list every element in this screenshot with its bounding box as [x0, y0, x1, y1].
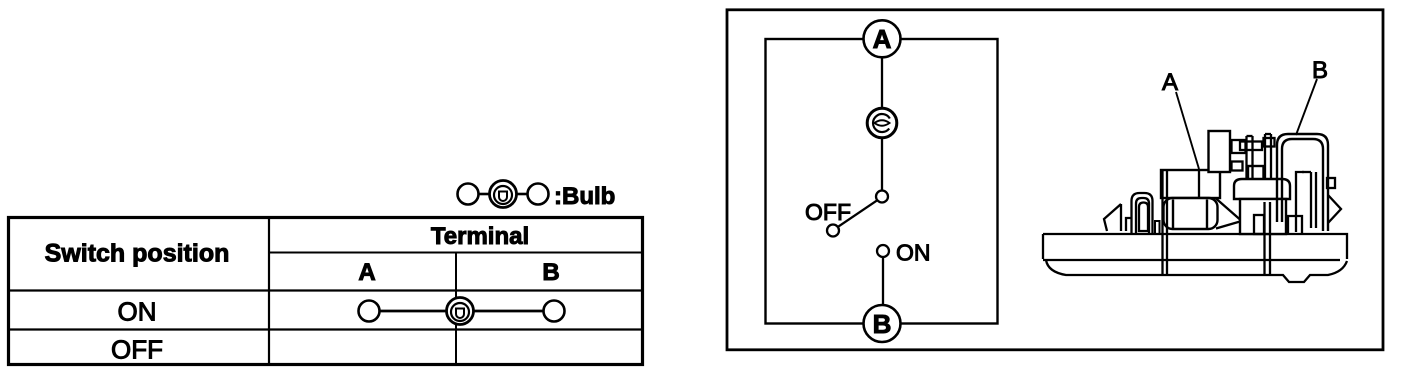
lamp inner right post: [1302, 172, 1316, 228]
svg-text:ON: ON: [118, 297, 157, 327]
table row line under Terminal: [269, 252, 642, 254]
circuit box: [766, 39, 998, 324]
lamp terminal posts: [1247, 134, 1272, 202]
lamp reflector cone: [1216, 199, 1240, 229]
svg-text:OFF: OFF: [111, 335, 163, 365]
lamp switch lid: [1234, 179, 1290, 199]
ON row continuity: terminal A circle: [359, 301, 380, 322]
svg-text:B: B: [873, 309, 892, 339]
svg-text:Switch position: Switch position: [45, 240, 230, 268]
lamp knob lower tab: [1232, 162, 1243, 171]
lamp base tray: [1043, 234, 1347, 282]
svg-text:A: A: [873, 24, 892, 54]
lamp bulb cylinder: [1164, 198, 1218, 229]
switch arm: [838, 200, 877, 227]
lamp switch body: [1240, 199, 1286, 234]
lamp crossbar left: [1240, 142, 1262, 151]
ON row terminal B circle: [544, 301, 565, 322]
svg-text:OFF: OFF: [805, 199, 851, 225]
lamp small post right of staple: [1155, 221, 1160, 234]
table column divider switch/terminal: [268, 217, 270, 365]
lamp left clip wire: [1163, 171, 1168, 275]
svg-text:B: B: [542, 259, 559, 286]
right panel border: [727, 10, 1383, 350]
table outer border: [9, 218, 643, 365]
ON row bulb symbol: [447, 298, 474, 325]
lamp knob: [1209, 131, 1231, 172]
lamp B bracket wire: [1277, 134, 1328, 231]
table row line under header: [9, 289, 642, 291]
svg-text:A: A: [1162, 69, 1178, 96]
lamp small step: [1126, 218, 1132, 231]
lamp right tab: [1327, 178, 1335, 188]
terminal A circle: [864, 20, 901, 57]
switch ON contact: [877, 245, 889, 257]
lamp right column: [1296, 172, 1304, 232]
lamp crossbar right: [1264, 138, 1275, 147]
table column divider A/B: [455, 253, 457, 365]
ON row wire A to bulb: [380, 310, 448, 313]
table row line between ON and OFF: [9, 328, 642, 330]
svg-text::Bulb: :Bulb: [554, 183, 615, 210]
switch OFF contact: [827, 225, 839, 237]
wire A to bulb: [881, 58, 883, 110]
svg-text:ON: ON: [896, 240, 931, 266]
lamp bracket foot: [1288, 216, 1302, 234]
lamp right arrow clip: [1328, 195, 1341, 223]
terminal B circle: [864, 305, 901, 342]
svg-text:B: B: [1312, 57, 1328, 84]
lamp leader line B: [1296, 79, 1317, 135]
wire bulb to switch pivot: [881, 138, 883, 191]
wire ON to B: [882, 257, 884, 306]
svg-text:Terminal: Terminal: [431, 223, 529, 250]
lamp pennant bracket: [1104, 204, 1121, 231]
legend bulb symbol: [458, 181, 549, 208]
lamp housing box: [1161, 170, 1220, 198]
lamp staple bracket: [1132, 193, 1153, 233]
bulb L1: [867, 108, 897, 138]
ON row wire bulb to B: [474, 310, 544, 313]
lamp right clip: [1265, 202, 1271, 275]
svg-text:A: A: [358, 259, 375, 286]
lamp leader line A: [1176, 92, 1199, 169]
lamp inner post below switch: [1254, 215, 1264, 234]
lamp knob tab: [1232, 140, 1246, 153]
switch pivot contact: [876, 191, 888, 203]
lamp post nut: [1248, 166, 1264, 182]
